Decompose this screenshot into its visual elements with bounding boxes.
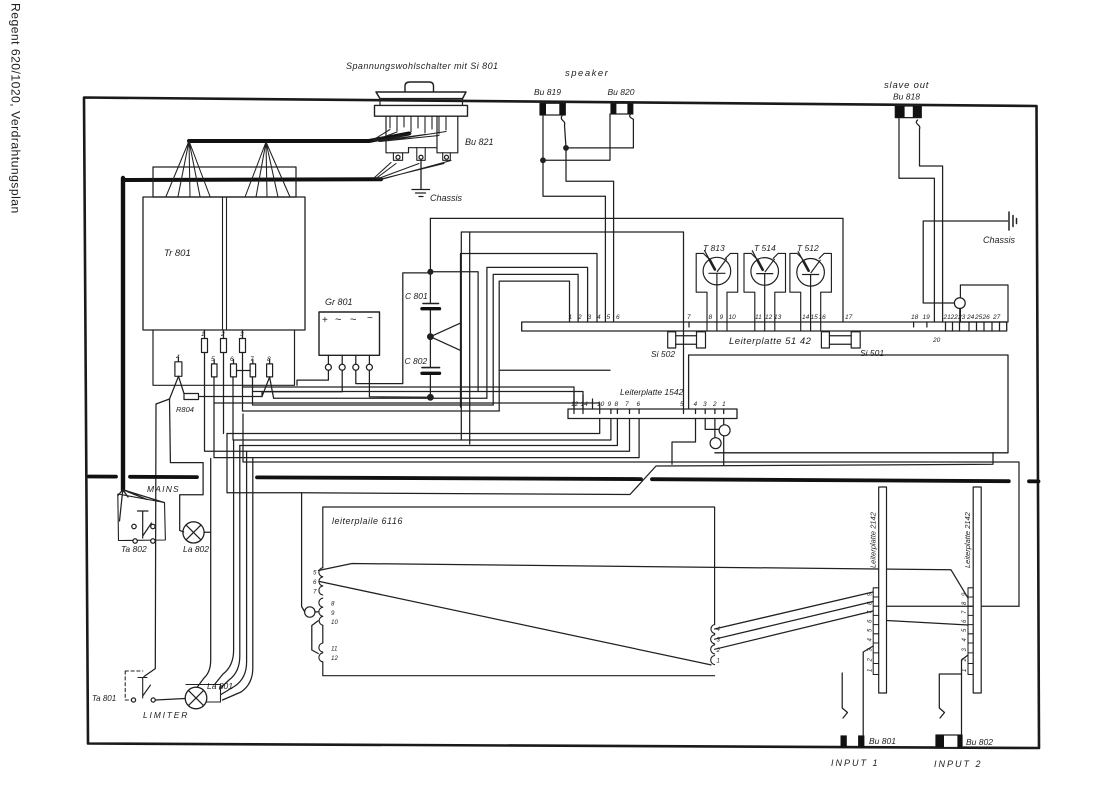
transformer yoke box [153,167,296,197]
voltage selector lug 3 [443,153,451,161]
wire t6 long [232,377,234,440]
dangling wire Bu801 [842,673,847,718]
voltage selector top plate [376,92,466,99]
wires from G1 horizontals into 1542 top [574,391,593,409]
svg-text:26: 26 [982,314,991,321]
transformer Tr 801 box [143,197,305,330]
svg-text:Gr 801: Gr 801 [325,297,353,307]
chassis wire right [923,221,1007,303]
wire strip2 to Bu802 [962,655,969,735]
svg-text:10: 10 [729,314,737,321]
svg-text:2: 2 [868,658,874,663]
svg-text:12: 12 [331,655,338,662]
transistor T813 housing [696,253,738,331]
6116 left pin bumps 5-10 [319,568,323,626]
svg-text:1: 1 [962,669,968,672]
Bu820 hook [630,114,634,120]
svg-text:7: 7 [625,401,629,408]
svg-text:4: 4 [694,401,698,408]
svg-text:12: 12 [765,314,773,321]
svg-text:Leiterplatte 2142: Leiterplatte 2142 [963,511,972,568]
svg-text:14: 14 [802,314,810,321]
svg-text:+: + [322,315,328,326]
terminal 2 [221,339,227,353]
6116 pin10-11 detour wire [312,621,318,654]
transistor T813 [703,257,731,285]
transformer fan 1 [166,141,210,197]
svg-text:Si 502: Si 502 [651,349,675,359]
Ta 802 switch pole [138,511,152,538]
svg-text:3: 3 [962,648,968,652]
wires terminals to 1542 top [214,387,600,409]
svg-text:T 813: T 813 [703,243,725,253]
svg-text:9: 9 [331,610,335,617]
chassis ground symbol right [1009,212,1017,230]
svg-text:1: 1 [717,658,720,665]
svg-text:6: 6 [868,619,874,623]
svg-text:INPUT 1: INPUT 1 [831,758,880,768]
svg-text:4: 4 [868,638,874,642]
svg-text:6: 6 [616,314,620,321]
wire V-split from cap junction [430,323,460,350]
transformer fan 2 [245,142,290,197]
lug contact circles [396,155,400,159]
bundle vertical b4 [221,451,247,694]
terminal 1 [202,339,208,353]
Leiterplatte 5142 bar [522,322,1007,331]
Ta 801 contacts [131,698,135,702]
wire t2 long [223,353,225,434]
loop wire to pin 4 [461,232,598,444]
capacitor C802 [422,367,440,369]
svg-text:Bu 820: Bu 820 [608,87,635,97]
Leiterplatte 2142 strip 2 [973,487,981,693]
voltage selector upper body sides [380,99,463,106]
voltage selector right column [409,116,458,153]
svg-text:8: 8 [962,601,968,605]
wire to La802 left [170,399,204,532]
La 801 box [186,685,221,703]
svg-text:~: ~ [335,314,341,326]
svg-text:Chassis: Chassis [430,193,463,203]
svg-text:Regent 620/1020, Verdrahtungsp: Regent 620/1020, Verdrahtungsplan [9,3,23,214]
inner horizontal wire [499,369,610,371]
wire Gr pin3 to C801 top [356,273,431,384]
svg-text:Bu 821: Bu 821 [465,137,494,147]
svg-text:MAINS: MAINS [147,484,180,494]
svg-text:5: 5 [313,570,317,577]
voltage selector left column [386,116,409,153]
6116 wire pin9 [315,611,318,613]
wire Bu819 right to junction [565,125,614,322]
junction dot speaker2 [541,158,546,163]
svg-text:17: 17 [845,314,853,321]
voltage selector lug 1 [393,153,402,161]
wire terminal4 to R804 [170,376,185,399]
fan from upper thick wire to selector pins [373,130,446,142]
svg-text:La 802: La 802 [183,544,209,554]
6116 diagonal wire d2 [320,582,712,665]
big right box [689,355,1008,453]
link terminal 6-7 [237,370,251,372]
dangling wire Bu802 [939,674,961,718]
svg-text:11: 11 [755,314,762,321]
thick mains cable vertical [121,178,125,490]
svg-text:Tr 801: Tr 801 [164,248,191,259]
svg-text:Bu 801: Bu 801 [869,736,896,746]
svg-text:20: 20 [932,337,941,344]
junction dot speaker1 [564,146,569,151]
fuse Si 501 [821,332,829,348]
thick primary wire upper [189,134,409,142]
svg-text:7: 7 [962,610,968,614]
wire junction to Bu820 hook [566,120,633,148]
circle to bar stub [959,309,961,323]
svg-text:4: 4 [717,626,721,633]
wire strip1 to Bu801 [863,646,873,735]
switch Ta 802 box [118,494,166,541]
resistor R804 [184,394,199,400]
wire junction2 to Bu820 left [543,114,610,160]
voltage selector lug 2 [417,148,425,161]
circle terminal on box [954,298,965,309]
svg-text:19: 19 [923,314,931,321]
wire t1 long [205,353,630,452]
svg-text:5: 5 [962,628,968,632]
svg-text:10: 10 [331,619,338,626]
wire cap junction to 478 drop [430,272,478,392]
svg-text:1: 1 [722,401,726,408]
Ta 801 switch pole [138,678,151,699]
svg-text:7: 7 [313,589,317,596]
svg-text:~: ~ [350,314,356,326]
wire R804 to V [199,396,263,398]
svg-text:27: 27 [992,314,1001,321]
6116 right pin bumps 4-1 [711,625,715,665]
svg-text:1: 1 [868,669,874,672]
wire right box down to strip pin8 row [879,605,1019,607]
loop wire to 1542 pin 5 [461,232,683,440]
svg-text:Bu 818: Bu 818 [893,92,920,102]
svg-text:Leiterplatte 51 42: Leiterplatte 51 42 [729,336,812,347]
rectifier Gr 801 box [319,312,380,355]
svg-text:5: 5 [607,314,611,321]
svg-text:T 512: T 512 [797,243,819,253]
wire Gr pin2 [262,370,342,396]
terminal 5 [212,364,218,377]
transformer skirt box [153,330,295,385]
svg-text:22: 22 [950,314,959,321]
Leiterplatte 1542 bar [568,409,737,419]
Bu819 hook [561,115,564,125]
Gr 801 pin stubs and circles [328,355,369,364]
wire switch to La801 [156,699,186,701]
wire 1542 pin4 down [672,419,696,465]
strip1 pin squares [873,588,879,675]
Ta 802 contacts [132,524,136,528]
svg-text:6: 6 [313,579,317,586]
wire slash break to right box [302,453,993,495]
transistor T512 [797,259,825,287]
svg-text:Leiterplatte 2142: Leiterplatte 2142 [869,511,878,568]
Leiterplatte 6116 board [323,507,715,676]
svg-text:Leiterplatte 1542: Leiterplatte 1542 [620,387,684,397]
bundle vertical b5 [223,458,253,700]
svg-text:14: 14 [581,401,589,408]
wire Bu818 hook to bar pin20b [920,129,943,322]
wire t8 V-feet [262,377,274,398]
voltage selector main plate [375,105,468,116]
wire Bu818 left pin down to bar pin20a [899,118,934,322]
transistor T514 [751,258,779,286]
svg-text:24: 24 [966,314,975,321]
transistor T514 housing [744,253,786,331]
bundle vertical b2 [215,440,234,685]
voltage selector pins [390,116,446,134]
wires 6116 right pins to strip1 [715,592,873,649]
connector Bu 801 [841,735,847,747]
svg-text:2: 2 [220,331,225,338]
svg-text:Ta 802: Ta 802 [121,544,147,554]
svg-text:7: 7 [687,314,691,321]
connector Bu 818 [895,106,921,118]
transistor T512 housing [790,253,832,331]
svg-text:8: 8 [709,314,713,321]
svg-text:La 801: La 801 [207,681,233,691]
svg-text:16: 16 [819,314,827,321]
terminal 4 [175,362,182,377]
bundle vertical b1 to 6116 loop [227,434,302,493]
svg-text:3: 3 [703,401,707,408]
thick divider line segments [89,477,1039,482]
svg-text:2: 2 [712,401,717,408]
mains cable fan to switch [118,490,164,521]
wire Gr pin4 to C802 bottom [369,370,430,397]
wire A top rail [430,218,843,322]
svg-text:Chassis: Chassis [983,235,1016,245]
svg-text:speaker: speaker [565,68,609,79]
capacitor stack wire [429,218,431,397]
connector Bu 802 [936,735,962,748]
svg-text:leiterplaile 6116: leiterplaile 6116 [332,516,403,526]
svg-text:C 802: C 802 [405,356,428,366]
strip2 pin squares [968,588,973,675]
svg-text:5: 5 [868,628,874,632]
bundle vertical b3 [220,446,240,690]
terminal connection stubs [178,330,269,364]
svg-text:18: 18 [911,314,919,321]
fan from lower thick wire to selector lugs [374,161,451,180]
junction dots on cap stack [428,269,433,274]
connector Bu 820 [611,103,633,114]
svg-text:25: 25 [974,314,983,321]
bundle horizontal g2b [253,377,494,405]
svg-text:Ta 801: Ta 801 [92,694,116,703]
wire t5 long [214,377,639,458]
voltage selector dome [405,82,434,92]
svg-text:12: 12 [571,401,579,408]
svg-text:slave out: slave out [884,80,929,91]
svg-text:R804: R804 [176,405,194,414]
svg-text:6: 6 [962,619,968,623]
svg-text:11: 11 [331,646,337,653]
svg-text:Bu 802: Bu 802 [966,737,993,747]
svg-text:6: 6 [637,401,641,408]
svg-text:5: 5 [680,401,684,408]
6116 pin 9 circle [305,607,315,617]
component box above bar right [960,285,1008,322]
capacitor C801 [423,303,439,305]
svg-text:8: 8 [331,601,335,608]
Bu818 hook [916,120,919,129]
svg-text:Bu 819: Bu 819 [534,87,561,97]
Tr 801 core divider [223,197,227,330]
svg-text:LIMITER: LIMITER [143,710,189,720]
loop wire to pin 2 [493,274,578,405]
lamp La 802 [183,522,204,543]
svg-text:C 801: C 801 [405,291,428,301]
terminal 3 [240,339,246,353]
svg-text:8: 8 [615,401,619,408]
bar pin ticks [689,322,1000,331]
wire terminal4 down to limiter [144,399,170,677]
switch Ta 801 dashed box [125,671,143,700]
svg-text:4: 4 [962,638,968,642]
terminal 7 [250,364,256,377]
wire Gr pin1 [297,370,328,385]
chassis ground under selector [412,160,430,196]
svg-text:15: 15 [811,314,819,321]
loop wire to pin 3 [487,267,588,398]
Leiterplatte 2142 strip 1 [879,487,887,693]
wire Bu819 left down [543,115,605,322]
svg-text:9: 9 [720,314,724,321]
bundle horizontal g2a [274,397,487,399]
svg-text:9: 9 [608,401,612,408]
1542 pin ticks [574,409,724,414]
6116 diagonal wire d1 [318,564,968,599]
svg-text:23: 23 [957,314,966,321]
terminal 8 [267,364,273,377]
svg-text:T 514: T 514 [754,243,776,253]
wire to La802 right [198,459,211,687]
loop wire to pin 1 [499,281,569,411]
svg-text:Si 501: Si 501 [860,348,884,358]
svg-text:10: 10 [597,401,605,408]
terminal 6 [231,364,237,377]
bundle horizontal g2c [243,353,500,412]
thick primary wire lower [123,177,381,182]
lamp La 801 [185,687,207,709]
Leiterplatte 6116 outer loop wire [302,493,305,612]
indicator circles under 1542 [705,419,724,466]
6116 left pin bumps 11-12 [319,643,323,662]
fuse Si 502 [668,332,676,348]
svg-text:−: − [367,313,373,324]
svg-text:Spannungswohlschalter mit Si 8: Spannungswohlschalter mit Si 801 [346,61,498,71]
svg-text:INPUT 2: INPUT 2 [934,759,983,769]
wires 1542 pins to left bundle [227,419,617,446]
connector Bu 819 [540,103,565,115]
wire long to strip area [243,414,1019,606]
wire strip1 to strip2 [887,621,969,626]
frame border [84,98,1039,749]
